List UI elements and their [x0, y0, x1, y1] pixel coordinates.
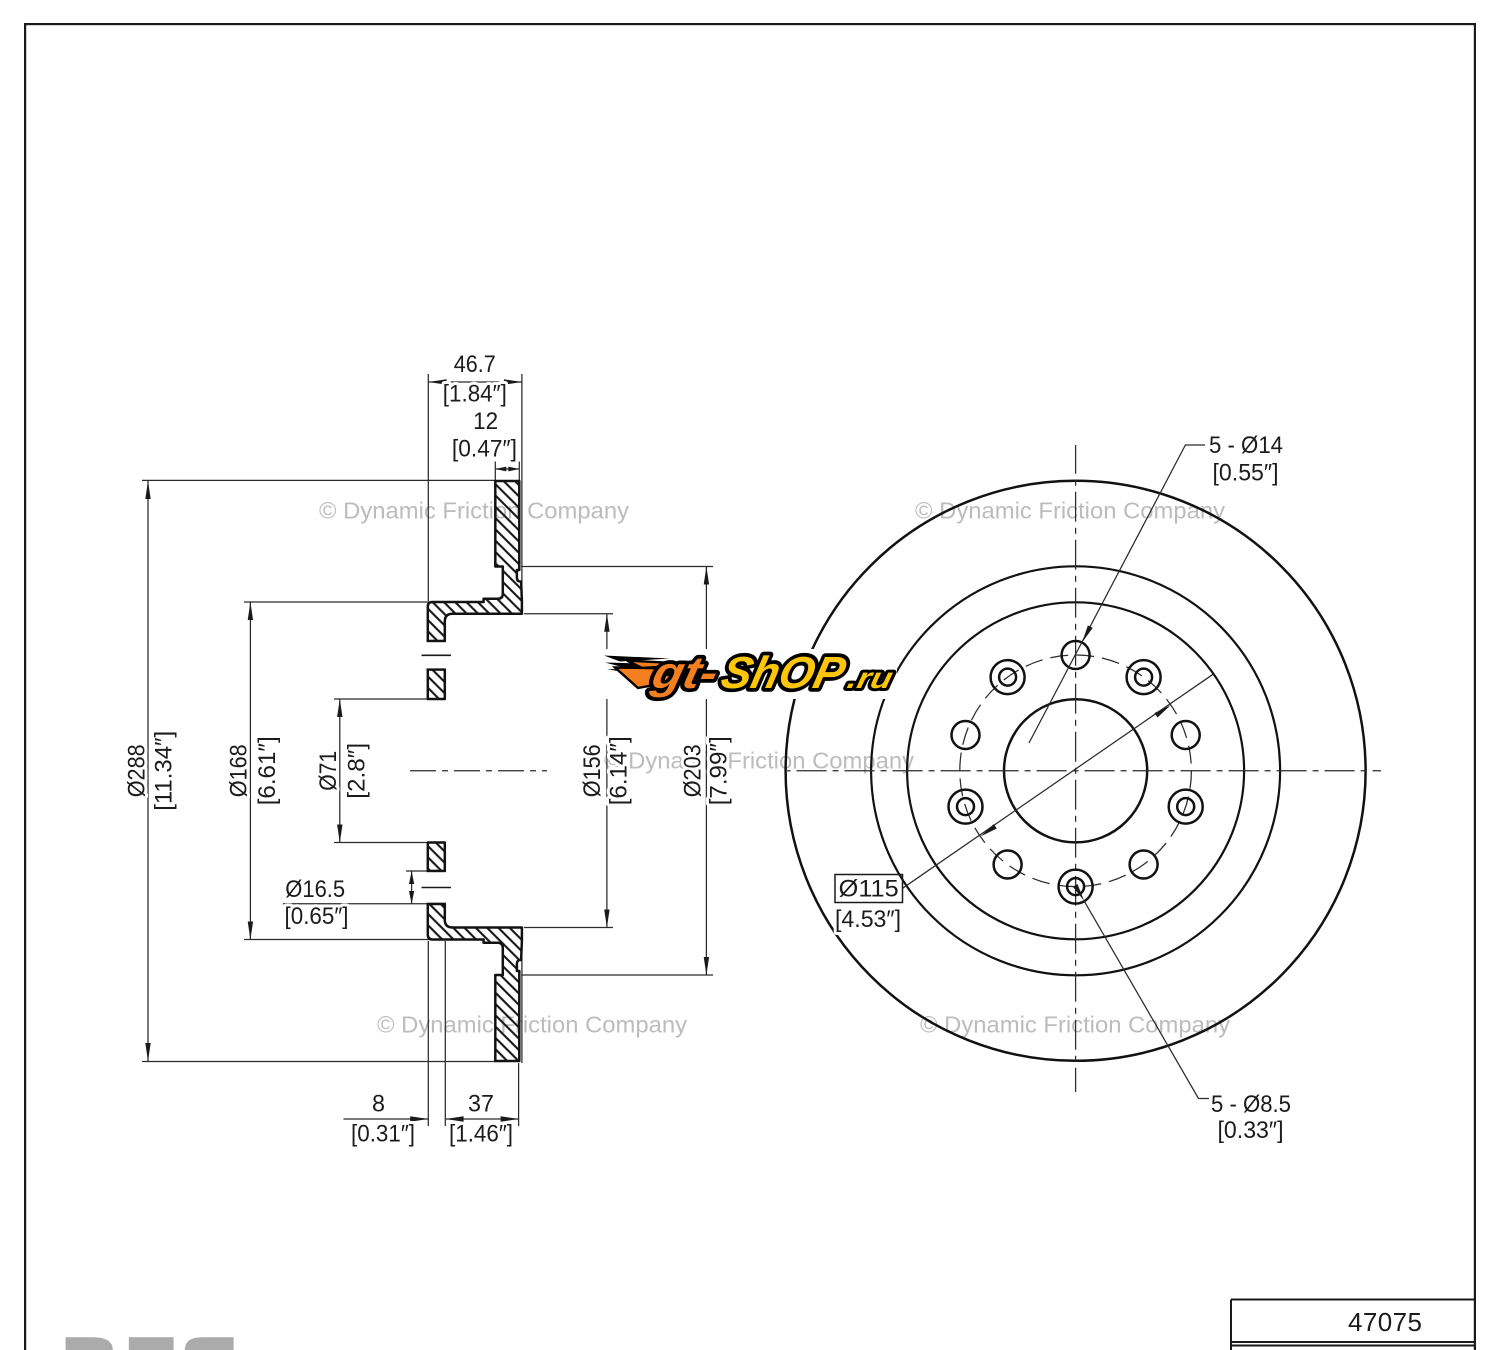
- svg-text:[2.8″]: [2.8″]: [344, 743, 371, 799]
- svg-text:Ø156: Ø156: [579, 744, 606, 797]
- svg-text:[0.33″]: [0.33″]: [1218, 1117, 1284, 1144]
- svg-text:© Dynamic Friction Company: © Dynamic Friction Company: [915, 498, 1225, 524]
- svg-text:Ø16.5: Ø16.5: [285, 876, 345, 903]
- svg-text:[0.47″]: [0.47″]: [452, 436, 517, 463]
- svg-text:[6.61″]: [6.61″]: [254, 736, 281, 805]
- svg-text:© Dynamic Friction Company: © Dynamic Friction Company: [319, 498, 629, 524]
- svg-text:[1.84″]: [1.84″]: [443, 381, 507, 408]
- svg-text:47075: 47075: [1348, 1307, 1422, 1337]
- svg-text:Ø115: Ø115: [839, 876, 899, 903]
- svg-text:ShOP: ShOP: [717, 648, 851, 698]
- svg-text:Ø71: Ø71: [315, 751, 342, 791]
- svg-text:[4.53″]: [4.53″]: [835, 906, 901, 933]
- svg-text:37: 37: [468, 1091, 494, 1118]
- svg-text:[7.99″]: [7.99″]: [705, 736, 732, 805]
- svg-text:Ø168: Ø168: [226, 744, 253, 797]
- svg-text:8: 8: [372, 1091, 385, 1118]
- svg-text:© Dynamic Friction Company: © Dynamic Friction Company: [377, 1012, 687, 1038]
- svg-text:[0.31″]: [0.31″]: [351, 1121, 415, 1148]
- svg-text:Ø203: Ø203: [680, 744, 707, 797]
- svg-text:gt-: gt-: [647, 648, 724, 698]
- svg-text:© Dynamic Friction Company: © Dynamic Friction Company: [604, 748, 914, 774]
- svg-text:5 - Ø14: 5 - Ø14: [1209, 432, 1283, 459]
- svg-text:.ru: .ru: [844, 662, 896, 695]
- svg-text:[11.34″]: [11.34″]: [151, 731, 178, 811]
- svg-text:46.7: 46.7: [454, 351, 496, 378]
- svg-text:12: 12: [473, 408, 498, 435]
- svg-text:[0.65″]: [0.65″]: [285, 903, 349, 930]
- svg-text:[0.55″]: [0.55″]: [1213, 460, 1279, 487]
- svg-text:5 - Ø8.5: 5 - Ø8.5: [1211, 1091, 1291, 1118]
- svg-text:Ø288: Ø288: [123, 744, 150, 797]
- svg-text:[1.46″]: [1.46″]: [449, 1121, 513, 1148]
- svg-text:[6.14″]: [6.14″]: [605, 736, 632, 805]
